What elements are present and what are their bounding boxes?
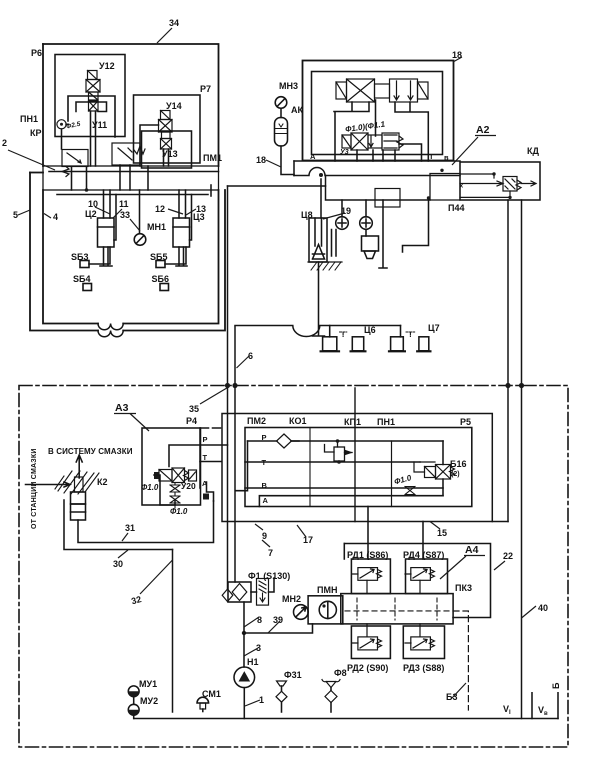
svg-text:РД3 (S88): РД3 (S88) [403, 663, 444, 673]
svg-text:МН3: МН3 [279, 81, 298, 91]
svg-text:Ф2.5: Ф2.5 [66, 121, 82, 131]
svg-text:У13: У13 [162, 149, 178, 159]
svg-text:12: 12 [155, 204, 165, 214]
svg-text:в: в [444, 153, 449, 162]
svg-text:15: 15 [437, 528, 447, 538]
svg-text:У14: У14 [166, 101, 182, 111]
svg-text:П44: П44 [448, 203, 464, 213]
svg-text:Т: Т [262, 458, 267, 467]
svg-text:33: 33 [120, 210, 130, 220]
svg-text:А: А [202, 479, 208, 488]
svg-text:SБ5: SБ5 [150, 252, 167, 262]
svg-text:ПН1: ПН1 [377, 417, 395, 427]
svg-text:40: 40 [538, 603, 548, 613]
svg-text:Ц2: Ц2 [85, 209, 97, 219]
svg-text:Ф1.0: Ф1.0 [170, 507, 188, 516]
svg-text:У12: У12 [99, 61, 115, 71]
svg-text:9: 9 [262, 531, 267, 541]
svg-text:К2: К2 [97, 477, 108, 487]
svg-text:МУ2: МУ2 [140, 696, 158, 706]
svg-text:МН1: МН1 [147, 222, 166, 232]
svg-text:4: 4 [53, 212, 58, 222]
svg-text:ПМ2: ПМ2 [247, 416, 266, 426]
svg-text:СМ1: СМ1 [202, 689, 221, 699]
svg-text:Р4: Р4 [186, 416, 197, 426]
svg-text:У3: У3 [340, 149, 349, 156]
svg-text:I: I [509, 710, 511, 716]
svg-text:Ц8: Ц8 [301, 210, 313, 220]
svg-text:Ц3: Ц3 [193, 212, 205, 222]
svg-text:Р6: Р6 [31, 48, 42, 58]
svg-text:Р: Р [262, 433, 267, 442]
svg-text:РД4 (S87): РД4 (S87) [403, 550, 444, 560]
svg-text:в: в [544, 711, 548, 717]
svg-text:SБ4: SБ4 [73, 274, 90, 284]
svg-text:МУ1: МУ1 [139, 679, 157, 689]
svg-text:ОТ СТАНЦИИ СМАЗКИ: ОТ СТАНЦИИ СМАЗКИ [31, 448, 38, 529]
svg-text:32: 32 [130, 594, 142, 606]
svg-text:ПМН: ПМН [317, 585, 337, 595]
svg-text:Ф31: Ф31 [284, 670, 302, 680]
svg-text:МН2: МН2 [282, 594, 301, 604]
svg-text:КП1: КП1 [344, 417, 361, 427]
svg-text:Р7: Р7 [200, 84, 211, 94]
svg-text:А3: А3 [115, 402, 129, 414]
svg-text:А4: А4 [465, 544, 479, 556]
svg-text:30: 30 [113, 559, 123, 569]
svg-text:P: P [203, 435, 208, 444]
svg-text:8: 8 [257, 615, 262, 625]
svg-text:А: А [263, 496, 269, 505]
svg-text:18: 18 [256, 155, 266, 165]
svg-text:Ф1 (S130): Ф1 (S130) [248, 571, 290, 581]
svg-text:Ц6: Ц6 [364, 325, 376, 335]
svg-text:Ф1.0: Ф1.0 [393, 473, 413, 486]
svg-text:ПК3: ПК3 [455, 583, 472, 593]
svg-text:SБ6: SБ6 [152, 274, 169, 284]
svg-text:Б16: Б16 [450, 459, 466, 469]
svg-text:11: 11 [119, 199, 129, 209]
svg-text:РД2 (S90): РД2 (S90) [347, 663, 388, 673]
svg-text:В СИСТЕМУ СМАЗКИ: В СИСТЕМУ СМАЗКИ [48, 447, 133, 456]
svg-text:35: 35 [189, 404, 199, 414]
svg-text:А2: А2 [476, 124, 490, 136]
svg-text:ПН1: ПН1 [20, 114, 38, 124]
svg-text:х: х [460, 183, 464, 190]
svg-text:У11: У11 [92, 120, 107, 130]
svg-text:19: 19 [341, 206, 351, 216]
svg-text:Ц7: Ц7 [428, 323, 440, 333]
svg-text:SБ3: SБ3 [71, 252, 88, 262]
svg-text:Ф8: Ф8 [334, 668, 347, 678]
svg-text:17: 17 [303, 535, 313, 545]
svg-text:В: В [262, 481, 268, 490]
svg-text:31: 31 [125, 523, 135, 533]
svg-text:3: 3 [256, 643, 261, 653]
svg-text:Р5: Р5 [460, 417, 471, 427]
svg-text:Ф1.0)(Ф1.1: Ф1.0)(Ф1.1 [345, 119, 386, 134]
svg-text:КО1: КО1 [289, 416, 307, 426]
svg-text:2: 2 [2, 138, 7, 148]
svg-text:А: А [310, 152, 316, 161]
svg-text:АК: АК [291, 105, 303, 115]
svg-text:22: 22 [503, 551, 513, 561]
svg-text:РД1 (S86): РД1 (S86) [347, 550, 388, 560]
svg-text:КР: КР [30, 128, 42, 138]
svg-text:Т: Т [203, 453, 208, 462]
svg-text:Н1: Н1 [247, 657, 259, 667]
svg-text:Т: Т [429, 152, 434, 161]
svg-text:7: 7 [268, 548, 273, 558]
svg-text:(2): (2) [451, 471, 460, 478]
svg-text:У20: У20 [181, 481, 196, 491]
svg-text:34: 34 [169, 18, 179, 28]
svg-text:Ф1.0: Ф1.0 [141, 483, 159, 492]
svg-text:ПМ1: ПМ1 [203, 153, 222, 163]
svg-text:Б: Б [551, 682, 561, 689]
svg-text:КД: КД [527, 146, 539, 156]
svg-text:5: 5 [13, 210, 18, 220]
